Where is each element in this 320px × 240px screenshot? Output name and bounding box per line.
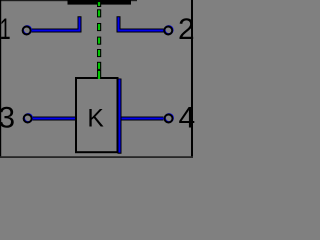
terminal 1 circle: [23, 26, 31, 34]
terminal 4 circle: [165, 114, 173, 122]
green dash over box edge: [97, 70, 101, 79]
svg-text:1: 1: [0, 13, 11, 46]
wire: coil right vertical side wire: [118, 79, 122, 154]
green dashed actuator link: [97, 1, 101, 70]
wire: coil left lead (terminal 3 to coil box): [33, 117, 77, 121]
relay coil box K: [76, 78, 118, 152]
window bottom border: [0, 156, 193, 158]
svg-text:3: 3: [0, 101, 15, 134]
terminal 2 circle: [165, 26, 173, 34]
terminal 3 circle: [24, 114, 32, 122]
svg-text:K: K: [87, 105, 104, 132]
window top edge: [0, 0, 137, 1]
wire: coil right lead (coil side wire to terminal 4): [120, 117, 164, 121]
wire: right contact blade (armature to terminal 2): [119, 16, 164, 30]
relay contact armature bar: [68, 0, 132, 5]
window right border: [191, 0, 193, 158]
wire: left contact blade (terminal 1 to armature): [32, 16, 80, 30]
window left border: [0, 0, 1, 158]
